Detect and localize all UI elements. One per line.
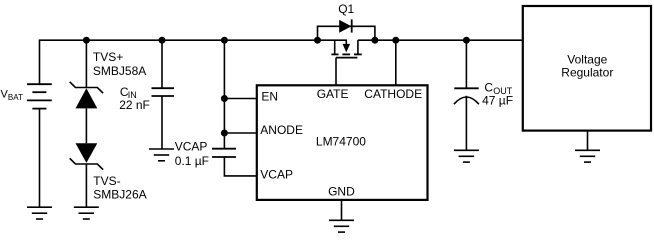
svg-text:ANODE: ANODE <box>260 123 303 137</box>
svg-text:BAT: BAT <box>8 93 23 102</box>
svg-text:LM74700: LM74700 <box>316 135 366 149</box>
svg-text:SMBJ58A: SMBJ58A <box>93 64 146 78</box>
svg-text:VCAP: VCAP <box>260 168 293 182</box>
svg-text:22 nF: 22 nF <box>119 98 150 112</box>
svg-text:VCAP: VCAP <box>175 140 208 154</box>
svg-text:Regulator: Regulator <box>561 66 613 80</box>
svg-text:0.1 µF: 0.1 µF <box>175 154 209 168</box>
svg-text:CATHODE: CATHODE <box>364 87 422 101</box>
svg-text:GATE: GATE <box>317 87 349 101</box>
svg-text:SMBJ26A: SMBJ26A <box>93 188 146 202</box>
svg-text:TVS-: TVS- <box>93 174 120 188</box>
svg-text:TVS+: TVS+ <box>93 50 123 64</box>
svg-text:Q1: Q1 <box>338 2 354 16</box>
svg-text:47 µF: 47 µF <box>482 93 513 107</box>
svg-text:EN: EN <box>261 90 278 104</box>
svg-text:GND: GND <box>328 185 355 199</box>
svg-text:Voltage: Voltage <box>567 53 607 67</box>
